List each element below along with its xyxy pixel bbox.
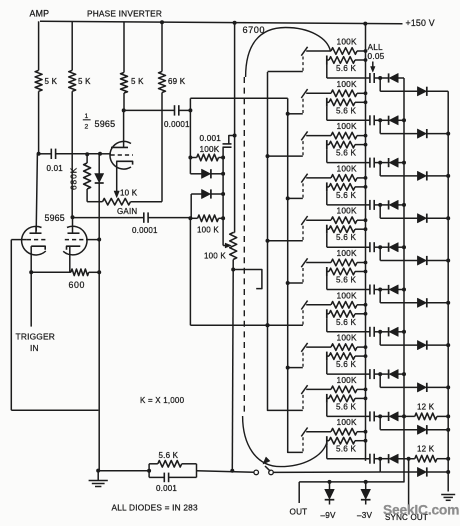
wire 5K#1 top lead: [38, 21, 40, 70]
node diode B right junction: [221, 192, 225, 196]
wire anode feed vertical: [233, 23, 234, 233]
node 100K-a right junction: [221, 156, 225, 160]
diode stage7 series: [389, 327, 399, 336]
node +150V supply rail: [40, 21, 403, 24]
diode guide A: [202, 169, 224, 178]
node 100K-a left junction: [188, 156, 192, 160]
resistor 100K guide A: [190, 154, 223, 161]
wire 5K#3 to tube anode node: [123, 93, 125, 110]
label OUT: [290, 508, 308, 517]
node stage2 on bus B: [286, 112, 290, 116]
label stage6 100K: [337, 248, 357, 258]
svg-text:1: 1: [85, 113, 89, 120]
svg-text:2: 2: [85, 123, 89, 130]
wire guide bus B: [288, 114, 303, 452]
node V2 anode junction: [122, 108, 126, 112]
node stage8 cap out: [378, 372, 382, 376]
node stage9 cap out: [378, 414, 382, 418]
node 100K-b left junction: [188, 216, 192, 220]
node -3V tap: [364, 480, 368, 484]
resistor stage6 100K: [306, 259, 367, 266]
diode stage4 sync: [417, 214, 448, 223]
resistor stage9 100K: [306, 386, 367, 393]
wire stage5 dashed drop: [302, 226, 304, 241]
node stage6 sync on bus: [446, 301, 450, 305]
resistor stage5 5.6K: [327, 225, 368, 243]
node stage7 on bus A: [266, 323, 270, 327]
diode guide B: [191, 189, 223, 198]
svg-text:5.6 K: 5.6 K: [159, 451, 179, 460]
node 100K-b right junction: [221, 216, 225, 220]
svg-text:100K: 100K: [337, 37, 357, 47]
diode stage8 sync: [417, 383, 448, 392]
svg-text:5.6 K: 5.6 K: [336, 106, 356, 115]
svg-text:0.05: 0.05: [368, 51, 385, 61]
capacitor stage10 0.05: [370, 454, 389, 464]
wire stage3 cathode pin: [301, 131, 307, 140]
node stage3 on bus A: [266, 154, 270, 158]
wire stage6 guide link: [288, 282, 303, 284]
wire pot bottom to junction: [232, 260, 234, 270]
svg-text:5.6 K: 5.6 K: [336, 64, 356, 73]
diode -3V clamp: [361, 482, 371, 505]
resistor stage1 5.6K: [327, 56, 368, 74]
diode stage1 series: [389, 73, 399, 82]
resistor stage4 5.6K: [327, 182, 368, 200]
resistor stage10 5.6K: [327, 436, 368, 454]
capacitor 0.001 discharge: [149, 464, 196, 493]
arrow V2 cathode to wiper: [114, 191, 119, 198]
resistor stage7 100K: [306, 302, 367, 309]
resistor 100K guide B: [190, 215, 223, 235]
wire V1a grid down left side: [10, 240, 12, 411]
ground symbol left: [89, 471, 108, 487]
capacitor stage9 0.05: [370, 411, 389, 421]
svg-text:5.6 K: 5.6 K: [336, 191, 356, 200]
wire V1b grid lead: [86, 239, 99, 241]
wire stage3 sync drop: [380, 163, 417, 176]
svg-text:5.6 K: 5.6 K: [336, 276, 356, 285]
wire stage5 guide link: [268, 240, 303, 242]
svg-text:OUT: OUT: [290, 508, 308, 517]
capacitor stage5 0.05: [370, 242, 389, 252]
wire stage9 dashed drop: [302, 395, 304, 410]
label K = X 1000: [140, 396, 185, 405]
node stage5 on OUT bus: [402, 245, 406, 249]
switch arm arrow: [263, 457, 270, 471]
node stage8 on bus B: [286, 366, 290, 370]
node stage3 on OUT bus: [402, 161, 406, 165]
svg-text:0.0001: 0.0001: [164, 120, 190, 129]
svg-text:100K: 100K: [337, 163, 357, 173]
wire stage8 to OUT bus: [398, 373, 404, 375]
capacitor stage2 0.05: [370, 115, 389, 125]
node node1 cap junction: [188, 108, 192, 112]
label TRIGGER IN: [16, 332, 56, 354]
node stage3 sync on bus: [446, 174, 450, 178]
label 100K upper: [200, 145, 220, 154]
wire stage4 output: [327, 191, 370, 205]
resistor stage6 5.6K: [327, 267, 368, 285]
wire stage5 sync drop: [380, 247, 417, 260]
svg-text:K = X 1,000: K = X 1,000: [140, 396, 185, 405]
arrow 0.05 pointer: [371, 62, 375, 73]
node diode A right junction: [221, 172, 225, 176]
svg-text:TRIGGER: TRIGGER: [16, 332, 56, 342]
svg-text:5 K: 5 K: [45, 77, 58, 86]
wire stage7 output: [327, 318, 370, 332]
diode stage10 series: [389, 454, 399, 463]
svg-text:AMP: AMP: [30, 9, 50, 19]
wire stage1 sync drop: [380, 78, 417, 91]
svg-text:GAIN: GAIN: [117, 207, 137, 216]
node anode hook junction: [231, 268, 235, 272]
wire stage8 output: [327, 361, 370, 375]
capacitor stage3 0.05: [370, 158, 389, 168]
wire stage9 sync drop: [380, 416, 417, 429]
wire stage7 sync drop: [380, 332, 417, 345]
diode stage1 sync: [417, 87, 448, 96]
wire stage8 guide link: [288, 367, 303, 369]
label stage10 12K: [417, 445, 435, 454]
switch reset contact left: [254, 470, 259, 475]
wire grid line to V2: [100, 153, 111, 155]
resistor stage9 12K: [415, 413, 450, 420]
node stage5 sync on bus: [446, 259, 450, 263]
wire node2 cross line: [190, 324, 302, 326]
svg-text:PHASE INVERTER: PHASE INVERTER: [87, 9, 162, 19]
wire stage1 dashed drop: [302, 57, 304, 72]
node stage4 on OUT bus: [402, 203, 406, 207]
node V1a cathode junction: [29, 270, 33, 274]
wire switch to sync row: [273, 471, 380, 473]
svg-text:100K: 100K: [337, 248, 357, 258]
label AMP: [30, 9, 50, 19]
resistor stage7 5.6K: [327, 309, 368, 327]
wire bottom to combo: [98, 470, 149, 472]
node anode line at out bus: [230, 469, 234, 473]
label stage5 100K: [337, 206, 357, 216]
node right anode junction: [71, 215, 75, 219]
resistor stage9 5.6K: [327, 394, 368, 412]
svg-text:100K: 100K: [337, 121, 357, 131]
svg-text:100K: 100K: [337, 206, 357, 216]
svg-text:5.6 K: 5.6 K: [336, 318, 356, 327]
capacitor stage6 0.05: [370, 285, 389, 295]
wire stage9 12K row: [398, 415, 415, 417]
wire stage8 sync drop: [380, 374, 417, 387]
label 10K: [120, 189, 138, 198]
svg-text:680K: 680K: [69, 167, 79, 190]
label stage1 100K: [337, 37, 357, 47]
wire stage4 cathode pin: [301, 174, 307, 183]
node stage2 on OUT bus: [402, 118, 406, 122]
svg-text:+150 V: +150 V: [406, 18, 435, 28]
wire node1 to diode A: [190, 158, 201, 174]
wire stage2 guide link: [288, 113, 303, 115]
node stage10 sync on bus: [446, 470, 450, 474]
wire stage5 output: [327, 234, 370, 248]
label +150V: [406, 18, 435, 28]
wire node1 down to 100K: [189, 110, 191, 157]
svg-text:100K: 100K: [337, 417, 357, 427]
svg-text:12 K: 12 K: [417, 445, 435, 454]
resistor 600 cathode: [69, 269, 89, 290]
wire stage10 output: [327, 445, 370, 459]
node ground junction: [96, 469, 100, 473]
label 6700: [243, 25, 265, 35]
wire guide bus A: [268, 72, 303, 410]
capacitor stage4 0.05: [370, 200, 389, 210]
wire stage9 cathode pin: [301, 385, 307, 394]
svg-text:600: 600: [69, 280, 85, 290]
resistor stage10 100K: [306, 428, 367, 435]
junction on rail at anode pot line: [233, 21, 237, 25]
label ALL DIODES = IN 283: [112, 503, 198, 513]
wire stage3 dashed drop: [302, 141, 304, 156]
node stage4 on bus B: [286, 196, 290, 200]
wire V1a grid lead: [11, 239, 26, 241]
wire stage2 cathode pin: [301, 89, 307, 98]
resistor 5K #3: [121, 73, 145, 94]
junction on rail at 69K: [160, 20, 164, 24]
arrow pot wiper: [223, 243, 231, 248]
wire stage3 output: [327, 149, 370, 163]
diode stage10 sync: [417, 467, 448, 476]
wire stage7 to OUT bus: [398, 331, 404, 333]
svg-text:–3V: –3V: [357, 511, 373, 520]
wire stage3 to OUT bus: [398, 162, 404, 164]
wire 69K top lead: [161, 22, 163, 71]
wire diode B left drop: [190, 194, 192, 218]
wire stage7 dashed drop: [302, 310, 304, 325]
resistor 5K #2 (inverter plate load): [69, 70, 91, 91]
potentiometer 10K GAIN: [103, 198, 138, 216]
wire pot right to 69K leg: [131, 201, 163, 203]
svg-text:5.6 K: 5.6 K: [336, 149, 356, 158]
watermark SeekIC.com: [383, 503, 459, 518]
wire 600 to ground leg: [89, 271, 100, 273]
wire stage6 to OUT bus: [398, 289, 404, 291]
diode stage5 sync: [417, 256, 448, 265]
diode stage7 sync: [417, 341, 448, 350]
wire stage5 to OUT bus: [398, 246, 404, 248]
diode stage5 series: [389, 243, 399, 252]
node stage4 sync on bus: [446, 216, 450, 220]
capacitor 0.0001 (anode to node1): [124, 105, 191, 129]
node stage6 on OUT bus: [402, 288, 406, 292]
node bypass junction on anode line: [233, 134, 237, 138]
tube V2 1/2 5965 triode: [110, 110, 133, 194]
wire stage10 12K row: [398, 458, 415, 460]
wire cathode bus: [31, 271, 71, 273]
wire 5K#2 down to 5965 right anode: [71, 91, 73, 217]
svg-text:ALL DIODES = IN 283: ALL DIODES = IN 283: [112, 503, 198, 513]
resistor stage3 5.6K: [327, 140, 368, 158]
node AMP anode junction: [37, 152, 41, 156]
resistor 5.6K discharge: [158, 451, 182, 467]
wire stage7 cathode pin: [301, 301, 307, 310]
svg-text:100K: 100K: [337, 375, 357, 385]
resistor stage8 100K: [306, 344, 367, 351]
wire 69K down to gain pot: [161, 93, 163, 202]
wire node1 cross line: [190, 97, 287, 99]
label stage2 100K: [337, 79, 357, 89]
potentiometer 100K anode: [204, 233, 237, 261]
wire stage10 cathode pin: [301, 428, 307, 437]
label 5965 (lower dual triode): [45, 213, 65, 223]
svg-text:5.6 K: 5.6 K: [336, 445, 356, 454]
capacitor 0.01 coupling: [39, 149, 100, 173]
node stage7 sync on bus: [446, 343, 450, 347]
label stage8 100K: [337, 333, 357, 343]
node stage10 cap out: [378, 457, 382, 461]
wire combo to switch: [197, 471, 254, 473]
wire stage8 cathode pin: [301, 343, 307, 352]
svg-text:0.01: 0.01: [47, 164, 64, 173]
wire transfer arc bottom: [243, 416, 327, 467]
wire common vertical to wiper: [222, 147, 224, 245]
node stage6 cap out: [378, 288, 382, 292]
wire 5K#2 top lead: [71, 22, 73, 71]
resistor stage2 100K: [306, 90, 367, 97]
tube V1b 5965 right triode: [63, 217, 87, 272]
svg-text:–9V: –9V: [321, 511, 337, 520]
resistor 5K #1 (AMP plate load): [35, 70, 57, 91]
svg-text:100K: 100K: [337, 290, 357, 300]
wire stage7 guide link: [268, 324, 303, 326]
node cross at bus A: [266, 323, 270, 327]
resistor stage1 100K: [306, 48, 367, 55]
wire stage3 guide link: [268, 155, 303, 157]
resistor stage10 12K: [415, 455, 450, 462]
wire 5K#1 to 0.01 node: [38, 91, 40, 153]
node stage8 on OUT bus: [402, 372, 406, 376]
wire stage4 guide link: [288, 197, 303, 199]
wire stage1 cathode pin: [301, 47, 307, 56]
svg-text:5.6 K: 5.6 K: [336, 402, 356, 411]
node stage10 sync tap: [407, 457, 411, 461]
svg-text:5 K: 5 K: [131, 77, 144, 86]
node combo left junction: [147, 469, 151, 473]
svg-text:100 K: 100 K: [204, 252, 226, 261]
node V2 grid junction: [98, 152, 102, 156]
diode stage3 sync: [417, 171, 448, 180]
wire stage10 dashed drop: [302, 437, 304, 452]
wire OUT bus: [299, 78, 404, 482]
wire grid return bottom: [11, 409, 98, 411]
svg-text:5.6 K: 5.6 K: [336, 360, 356, 369]
wire stage2 dashed drop: [302, 99, 304, 114]
label PHASE INVERTER: [87, 9, 162, 19]
diode stage3 series: [389, 158, 399, 167]
wire transfer arc top: [246, 28, 331, 78]
label stage7 100K: [337, 290, 357, 300]
node stage7 on OUT bus: [402, 330, 406, 334]
wire stage9 output: [327, 403, 370, 417]
diode stage8 series: [389, 370, 399, 379]
node stage5 on bus A: [266, 239, 270, 243]
junction on rail at ladder bus: [363, 22, 367, 26]
diode stage6 series: [389, 285, 399, 294]
wire 5K#3 top lead: [123, 22, 125, 73]
switch reset contact right: [269, 470, 274, 475]
diode -9V clamp: [325, 482, 335, 505]
wire stage1 guide link: [268, 71, 303, 73]
svg-text:10 K: 10 K: [120, 189, 138, 198]
svg-text:5965: 5965: [95, 119, 116, 129]
resistor stage3 100K: [306, 132, 367, 139]
wire trigger stub: [30, 272, 32, 326]
node -9V tap: [328, 480, 332, 484]
svg-text:100 K: 100 K: [197, 226, 219, 235]
svg-text:100K: 100K: [337, 79, 357, 89]
node stage2 sync on bus: [446, 132, 450, 136]
diode stage9 series: [389, 412, 399, 421]
label 1/2 5965: [83, 113, 116, 130]
label SYNC OUT: [385, 513, 428, 522]
svg-text:5.6 K: 5.6 K: [336, 233, 356, 242]
resistor stage5 100K: [306, 217, 367, 224]
node stage7 cap out: [378, 330, 382, 334]
node stage8 sync on bus: [446, 385, 450, 389]
label stage10 100K: [337, 417, 357, 427]
wire node2 drop: [189, 218, 191, 325]
diode stage2 series: [389, 116, 399, 125]
resistor 680K grid leak: [69, 154, 91, 190]
svg-text:69 K: 69 K: [168, 77, 186, 86]
node stage2 cap out: [378, 118, 382, 122]
wire ground leg vertical: [98, 240, 100, 471]
wire stage1 to OUT bus: [398, 77, 404, 79]
node stage6 on bus B: [286, 281, 290, 285]
wire +150V ladder bus: [365, 24, 367, 461]
resistor stage8 5.6K: [327, 352, 368, 370]
node stage1 cap out: [378, 76, 382, 80]
node V1b grid junction: [97, 238, 101, 242]
wire stage2 sync drop: [380, 120, 417, 133]
capacitor 0.001 anode bypass: [200, 134, 235, 147]
node 600 junction: [97, 270, 101, 274]
label stage9 12K: [417, 402, 435, 411]
wire stage10 sync drop: [380, 459, 417, 472]
wire transfer dashed drop: [243, 77, 245, 416]
svg-text:100K: 100K: [337, 333, 357, 343]
wire anode line down to out bus: [231, 270, 234, 471]
svg-text:IN: IN: [30, 343, 39, 353]
wire stage4 sync drop: [380, 205, 417, 218]
wire stage4 to OUT bus: [398, 204, 404, 206]
label -9V: [321, 511, 337, 520]
wire bus B top drop: [287, 98, 289, 114]
diode stage9 sync: [417, 425, 448, 434]
svg-text:5965: 5965: [45, 213, 65, 223]
node 680K top junction: [85, 152, 89, 156]
wire stage6 sync drop: [380, 290, 417, 303]
wire stage5 cathode pin: [301, 216, 307, 225]
diode stage6 sync: [417, 298, 448, 307]
resistor stage4 100K: [306, 175, 367, 182]
wire anode hook into tube: [233, 270, 262, 289]
svg-text:0.001: 0.001: [156, 484, 177, 493]
wire stage6 cathode pin: [301, 258, 307, 267]
terminal OUT stub: [298, 482, 300, 503]
node stage4 cap out: [378, 203, 382, 207]
label ALL 0.05: [368, 42, 385, 61]
wire SYNC bus: [447, 91, 449, 491]
svg-text:6700: 6700: [243, 25, 265, 35]
label -3V: [357, 511, 373, 520]
